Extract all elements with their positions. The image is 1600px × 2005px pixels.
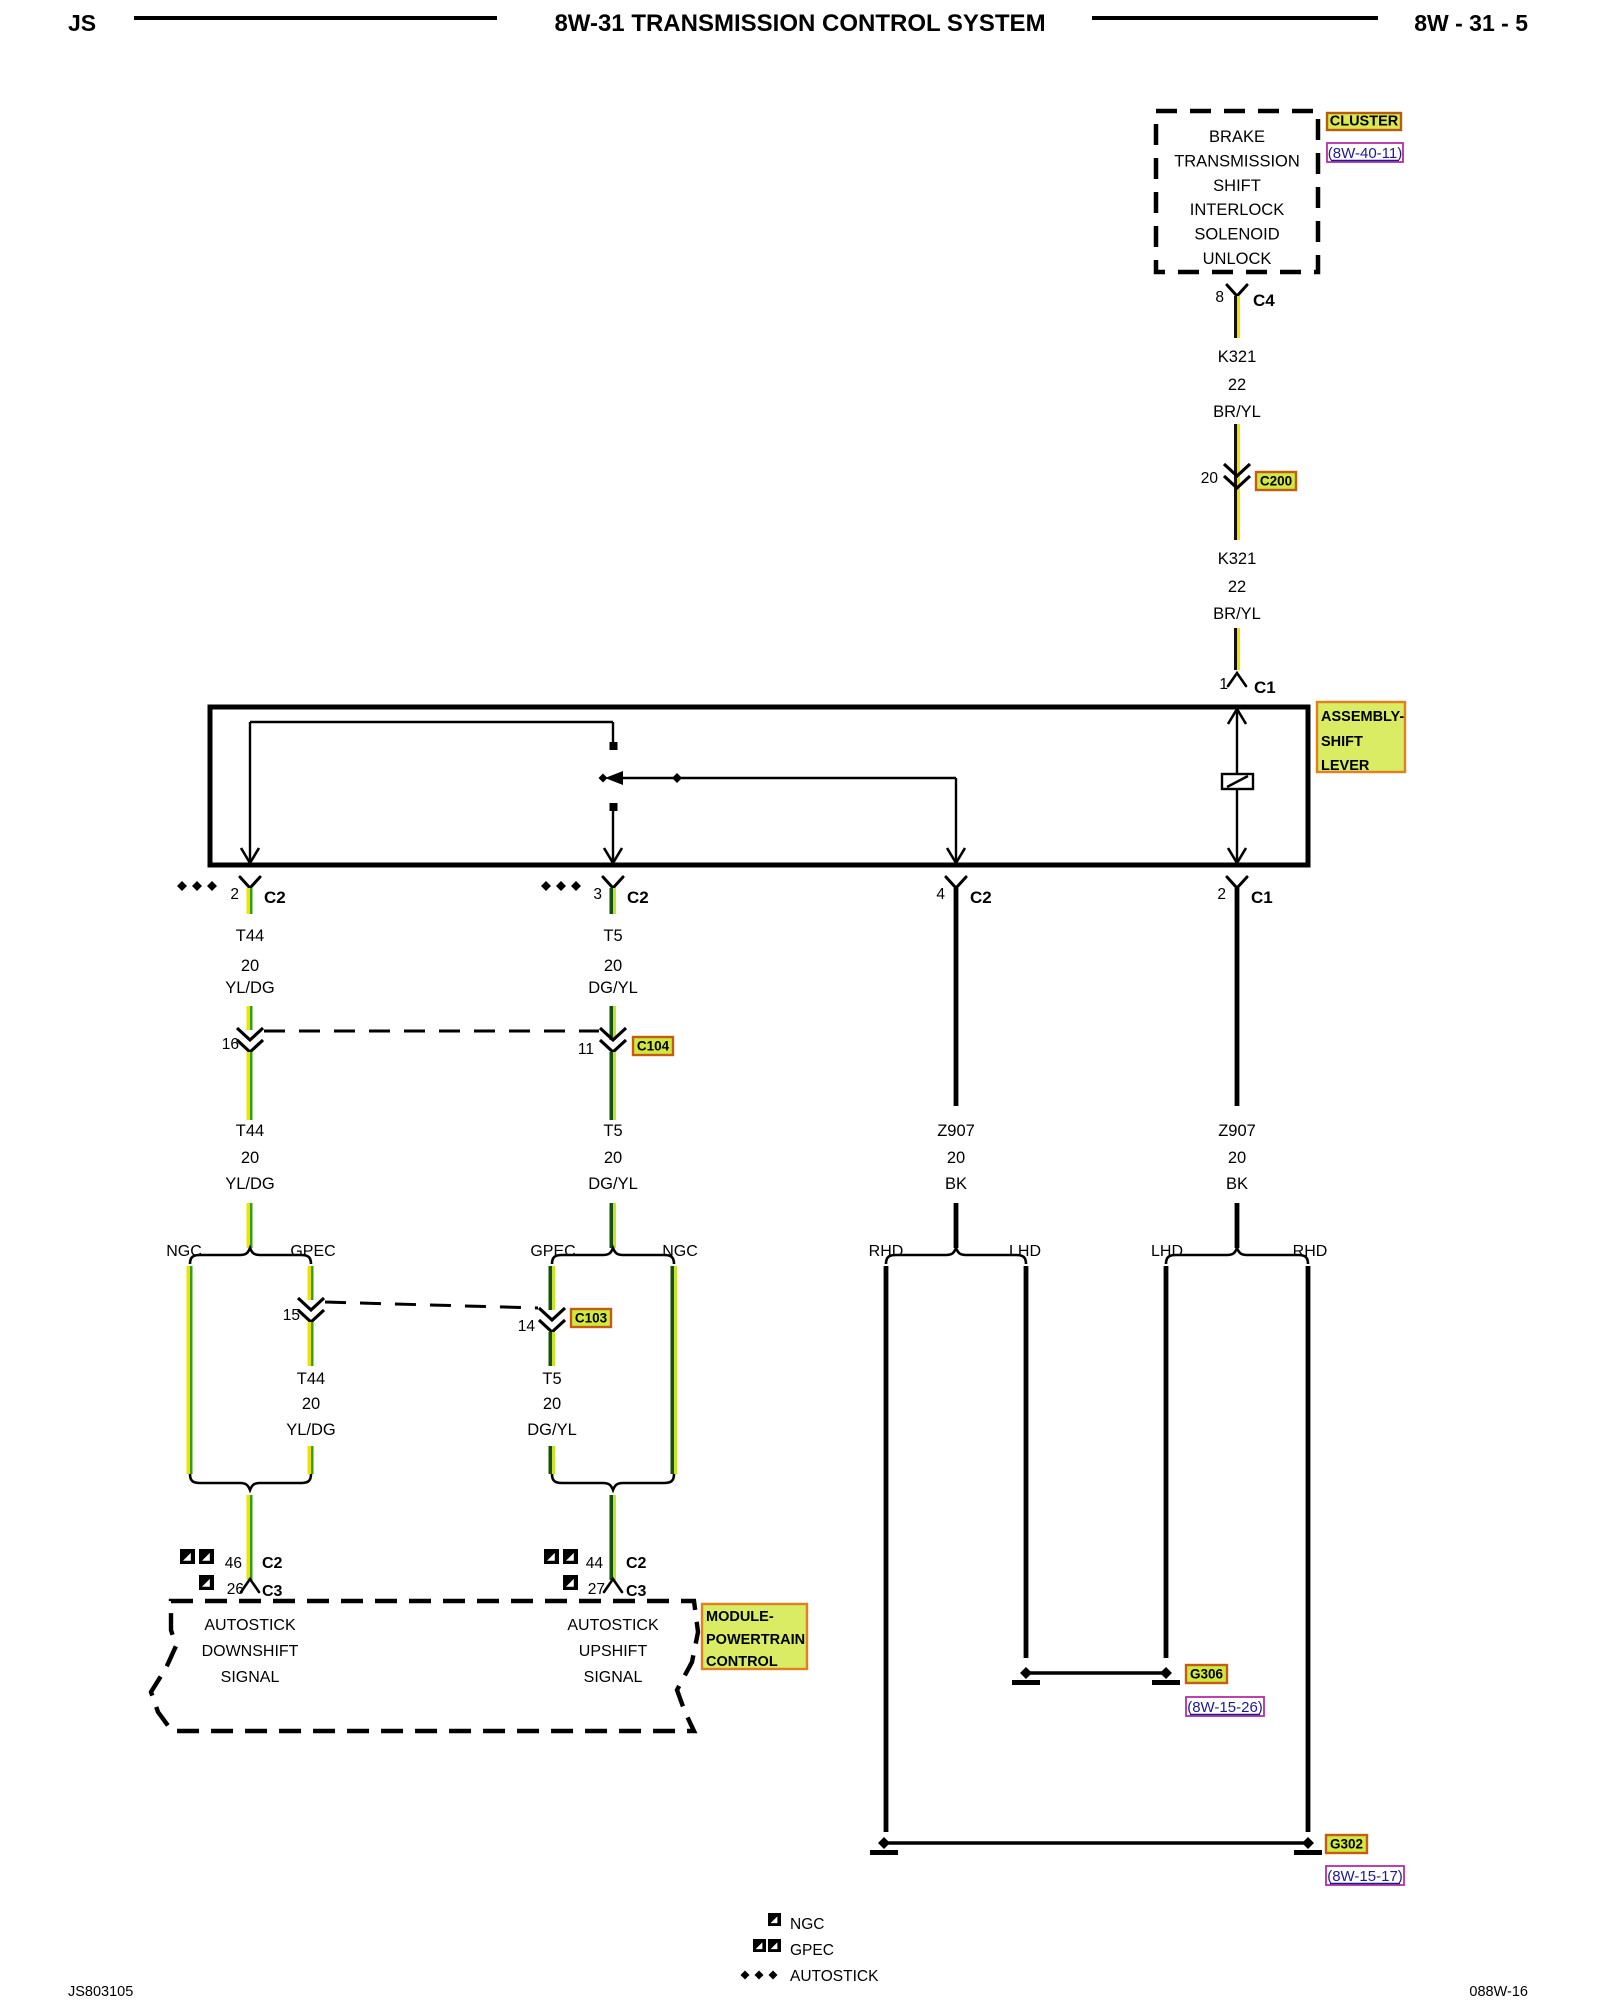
merge brace wire1 (190, 1474, 311, 1490)
svg-text:NGC: NGC (790, 1916, 824, 1933)
svg-text:(8W-15-26): (8W-15-26) (1187, 1699, 1263, 1716)
svg-text:(8W-15-17): (8W-15-17) (1327, 1868, 1403, 1885)
dashed tie line C104 (264, 1030, 599, 1033)
svg-text:ASSEMBLY-: ASSEMBLY- (1321, 709, 1404, 725)
svg-text:G306: G306 (1190, 1667, 1224, 1682)
wire lower contact to pin3 C2 (612, 810, 614, 863)
svg-text:GPEC: GPEC (290, 1243, 335, 1260)
autostick dots wire2 (541, 881, 551, 891)
GPEC branch wire upper (308, 1266, 312, 1300)
wire K321 22 BR/YL (upper) (1234, 296, 1237, 338)
split brace NGC/GPEC (190, 1248, 311, 1264)
label MODULE-POWERTRAIN CONTROL (702, 1604, 807, 1669)
svg-text:YL/DG: YL/DG (225, 1175, 275, 1193)
svg-text:SIGNAL: SIGNAL (584, 1669, 643, 1686)
wire upper contact (250, 721, 613, 723)
svg-text:NGC: NGC (662, 1243, 698, 1260)
link 8W-40-11 (1327, 143, 1403, 162)
wire T44 20 YL/DG (lower) (247, 1052, 251, 1120)
svg-text:C200: C200 (1260, 474, 1292, 489)
merge brace wire2 (552, 1474, 674, 1490)
svg-text:2: 2 (230, 886, 239, 903)
svg-text:T44: T44 (297, 1370, 325, 1388)
connector C103 pin 14 (539, 1308, 565, 1320)
svg-text:CONTROL: CONTROL (706, 1654, 778, 1670)
svg-text:SHIFT: SHIFT (1213, 177, 1261, 195)
svg-text:3: 3 (593, 886, 602, 903)
LHD branch wire3 (1024, 1266, 1029, 1658)
BTSI solenoid (1222, 774, 1253, 789)
PCM pins 26 C3 (199, 1575, 214, 1590)
link 8W-15-17 (1326, 1866, 1404, 1885)
svg-text:C104: C104 (637, 1039, 670, 1054)
svg-text:20: 20 (543, 1395, 561, 1413)
svg-text:C2: C2 (970, 888, 992, 907)
svg-text:46: 46 (225, 1555, 242, 1572)
svg-text:T5: T5 (603, 1122, 622, 1140)
svg-text:BR/YL: BR/YL (1213, 403, 1261, 421)
svg-text:C2: C2 (627, 888, 649, 907)
wire switch arm to pin4 C2 (955, 778, 957, 863)
connector C2 pin 3 (603, 877, 623, 888)
svg-text:MODULE-: MODULE- (706, 1609, 774, 1625)
dashed tie line C103 (325, 1302, 538, 1308)
svg-text:Z907: Z907 (1218, 1122, 1256, 1140)
svg-text:C4: C4 (1253, 291, 1275, 310)
svg-text:DG/YL: DG/YL (588, 979, 638, 997)
svg-text:C2: C2 (262, 1555, 283, 1572)
svg-text:LHD: LHD (1151, 1243, 1183, 1260)
svg-text:T44: T44 (236, 927, 264, 945)
svg-text:SHIFT: SHIFT (1321, 734, 1363, 750)
ground G306 tie line (1026, 1671, 1166, 1675)
RHD branch wire4 (1306, 1266, 1311, 1832)
svg-text:UPSHIFT: UPSHIFT (579, 1643, 648, 1660)
legend AUTOSTICK (741, 1971, 750, 1980)
ground symbol G302 left (878, 1837, 890, 1849)
svg-text:27: 27 (588, 1581, 605, 1598)
svg-text:K321: K321 (1218, 348, 1257, 366)
label C200 (1256, 472, 1296, 490)
svg-text:15: 15 (283, 1307, 300, 1324)
label CLUSTER (1327, 113, 1401, 130)
link 8W-15-26 (1186, 1697, 1264, 1716)
svg-text:20: 20 (1228, 1149, 1246, 1167)
wire T44 20 YL/DG (upper) (247, 888, 251, 914)
header rule right (1092, 16, 1378, 20)
svg-text:2: 2 (1217, 886, 1226, 903)
svg-text:20: 20 (241, 957, 259, 975)
svg-text:44: 44 (586, 1555, 604, 1572)
svg-text:C3: C3 (262, 1583, 283, 1600)
svg-text:AUTOSTICK: AUTOSTICK (790, 1968, 879, 1985)
wire T5 20 DG/YL (GPEC) (549, 1332, 553, 1366)
split brace LHD/RHD (1166, 1248, 1308, 1264)
connector C2 pin 2 (240, 877, 260, 888)
svg-text:K321: K321 (1218, 550, 1257, 568)
wire solenoid to C1 pin2 (1236, 789, 1238, 863)
svg-text:YL/DG: YL/DG (225, 979, 275, 997)
svg-text:C2: C2 (264, 888, 286, 907)
svg-text:POWERTRAIN: POWERTRAIN (706, 1632, 805, 1648)
svg-text:SOLENOID: SOLENOID (1194, 226, 1279, 244)
svg-text:BK: BK (945, 1175, 967, 1193)
svg-text:INTERLOCK: INTERLOCK (1190, 201, 1284, 219)
svg-text:YL/DG: YL/DG (286, 1421, 336, 1439)
assembly shift lever box (210, 707, 1308, 865)
svg-text:(8W-40-11): (8W-40-11) (1328, 145, 1402, 162)
connector C1 pin 2 (1227, 877, 1247, 888)
svg-text:T5: T5 (542, 1370, 561, 1388)
svg-text:AUTOSTICK: AUTOSTICK (567, 1617, 659, 1634)
ground symbol G306 right (1160, 1667, 1172, 1679)
svg-text:CLUSTER: CLUSTER (1330, 114, 1399, 130)
svg-text:C1: C1 (1251, 888, 1273, 907)
svg-text:LHD: LHD (1009, 1243, 1041, 1260)
svg-text:11: 11 (578, 1041, 594, 1058)
svg-text:20: 20 (1201, 470, 1219, 487)
label C103 (571, 1309, 611, 1327)
svg-text:16: 16 (222, 1036, 239, 1053)
module powertrain control dashed box (151, 1601, 698, 1731)
svg-text:8W-31 TRANSMISSION CONTROL SYS: 8W-31 TRANSMISSION CONTROL SYSTEM (554, 10, 1045, 37)
connector C1 pin 1 (1228, 673, 1246, 686)
svg-text:T44: T44 (236, 1122, 264, 1140)
svg-text:NGC: NGC (166, 1243, 202, 1260)
svg-text:C103: C103 (575, 1311, 608, 1326)
connector C2 pin 4 (946, 877, 966, 888)
merged wire2 to PCM (610, 1495, 614, 1580)
wire T5 20 DG/YL (lower) (610, 1052, 614, 1120)
svg-text:088W-16: 088W-16 (1469, 1984, 1528, 2000)
legend GPEC (753, 1939, 766, 1952)
label G302 (1326, 1835, 1367, 1853)
upper contact (610, 742, 618, 750)
switch arm (614, 777, 956, 779)
svg-text:20: 20 (241, 1149, 259, 1167)
svg-text:G302: G302 (1330, 1837, 1363, 1852)
NGC branch wire2 (671, 1266, 675, 1474)
svg-text:RHD: RHD (869, 1243, 904, 1260)
svg-text:20: 20 (604, 957, 622, 975)
wire T44 20 YL/DG (GPEC) (308, 1322, 312, 1366)
svg-text:AUTOSTICK: AUTOSTICK (204, 1617, 296, 1634)
ground G302 tie line (884, 1841, 1308, 1845)
lower contact (610, 803, 618, 811)
svg-text:RHD: RHD (1293, 1243, 1328, 1260)
connector C104 pin 11 (600, 1028, 626, 1040)
svg-text:C3: C3 (626, 1583, 647, 1600)
connector C200 pin 20 (1224, 464, 1250, 476)
label G306 (1186, 1665, 1227, 1683)
wire Z907 20 BK (wire3) (954, 888, 959, 1106)
svg-text:DG/YL: DG/YL (588, 1175, 638, 1193)
ground symbol G306 left (1020, 1667, 1032, 1679)
svg-text:DG/YL: DG/YL (527, 1421, 577, 1439)
connector C4 pin 8 (1227, 285, 1247, 296)
split brace RHD/LHD (886, 1248, 1026, 1264)
svg-text:LEVER: LEVER (1321, 758, 1370, 774)
svg-text:20: 20 (302, 1395, 320, 1413)
svg-text:BK: BK (1226, 1175, 1248, 1193)
RHD branch wire3 (884, 1266, 889, 1832)
wire T5 20 DG/YL (upper) (610, 888, 614, 914)
svg-text:14: 14 (518, 1318, 536, 1335)
svg-text:JS803105: JS803105 (68, 1984, 133, 2000)
svg-text:UNLOCK: UNLOCK (1203, 250, 1272, 268)
PCM pins 46 C2 (180, 1549, 195, 1564)
svg-text:20: 20 (604, 1149, 622, 1167)
svg-text:C1: C1 (1254, 678, 1276, 697)
legend NGC (768, 1913, 781, 1926)
svg-text:SIGNAL: SIGNAL (221, 1669, 280, 1686)
connector C103 pin 15 (298, 1298, 324, 1310)
svg-text:4: 4 (936, 886, 945, 903)
autostick dots wire1 (177, 881, 187, 891)
svg-text:JS: JS (68, 10, 96, 36)
svg-text:TRANSMISSION: TRANSMISSION (1174, 152, 1300, 170)
connector C104 pin 16 (237, 1028, 263, 1040)
switch wire to pin2 C2 (249, 722, 251, 863)
svg-text:20: 20 (947, 1149, 965, 1167)
cluster (BTSI) dashed box (1156, 111, 1318, 272)
svg-text:C2: C2 (626, 1555, 647, 1572)
svg-text:1: 1 (1219, 676, 1228, 693)
PCM pins 44 C2 (544, 1549, 559, 1564)
PCM pins 27 C3 (563, 1575, 578, 1590)
NGC branch wire (187, 1266, 191, 1474)
svg-text:8: 8 (1215, 289, 1224, 306)
svg-text:T5: T5 (603, 927, 622, 945)
svg-text:8W - 31 - 5: 8W - 31 - 5 (1414, 10, 1528, 36)
ground symbol G302 right (1302, 1837, 1314, 1849)
svg-text:DOWNSHIFT: DOWNSHIFT (202, 1643, 299, 1660)
label C104 (633, 1037, 673, 1055)
svg-text:22: 22 (1228, 376, 1246, 394)
svg-text:BRAKE: BRAKE (1209, 128, 1265, 146)
svg-text:22: 22 (1228, 578, 1246, 596)
wire C1 pin1 to solenoid (1236, 709, 1238, 774)
svg-text:BR/YL: BR/YL (1213, 605, 1261, 623)
GPEC branch wire upper (549, 1266, 553, 1310)
header rule left (134, 16, 497, 20)
LHD branch wire4 (1164, 1266, 1169, 1658)
svg-text:GPEC: GPEC (530, 1243, 575, 1260)
merged wire to PCM (247, 1495, 251, 1580)
svg-text:Z907: Z907 (937, 1122, 975, 1140)
label ASSEMBLY-SHIFT LEVER (1317, 702, 1405, 772)
split brace GPEC/NGC (552, 1248, 674, 1264)
svg-text:GPEC: GPEC (790, 1942, 834, 1959)
wire Z907 20 BK (wire4) (1235, 888, 1240, 1106)
